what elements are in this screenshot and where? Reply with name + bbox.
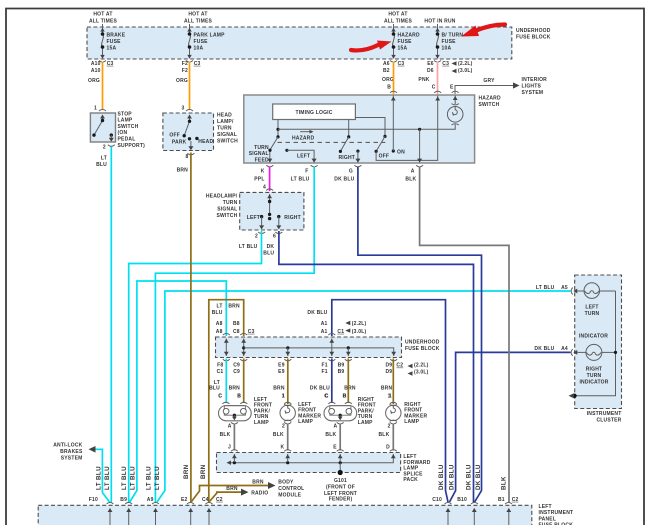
svg-text:F1: F1 — [321, 369, 327, 375]
svg-text:OFF: OFF — [379, 154, 390, 160]
svg-text:C9: C9 — [233, 369, 240, 375]
svg-text:B10: B10 — [457, 497, 467, 503]
node A BLK — [405, 168, 416, 182]
svg-text:B2: B2 — [383, 68, 390, 74]
wire LT BLU anti-lock brakes branch from F10 — [95, 449, 110, 502]
svg-text:GRY: GRY — [483, 78, 495, 84]
svg-text:STOP: STOP — [118, 111, 133, 117]
connector arcs hazard box bottom pins K F G A — [266, 165, 423, 167]
node F LT BLU — [291, 168, 310, 182]
node F1 F1 col4 out — [310, 363, 330, 400]
svg-text:B: B — [237, 394, 241, 400]
node F8 C1 col1 out — [209, 363, 223, 400]
svg-text:2: 2 — [255, 234, 258, 240]
svg-text:MODULE: MODULE — [278, 493, 301, 499]
node DK BLU A4 — [534, 346, 577, 356]
svg-text:ALL TIMES: ALL TIMES — [89, 19, 118, 25]
svg-text:PACK: PACK — [403, 477, 418, 483]
svg-text:B8: B8 — [233, 321, 240, 327]
wire timing logic right feed to on/off switch — [355, 118, 386, 138]
svg-text:HAZARD: HAZARD — [398, 33, 420, 39]
hazard indicator lamp — [447, 96, 463, 126]
svg-text:BLK: BLK — [501, 476, 508, 490]
wire BRN fuse block C8 to C4 — [209, 300, 244, 503]
wire BRN col2 to lamp1 B — [243, 359, 245, 404]
svg-text:INTERIOR: INTERIOR — [522, 77, 548, 83]
svg-text:FUSE: FUSE — [107, 39, 122, 45]
svg-text:LT BLU: LT BLU — [154, 466, 161, 490]
lamp left front marker — [280, 394, 321, 430]
wire col3 from bus — [285, 348, 290, 356]
svg-text:C: C — [218, 394, 222, 400]
svg-text:D6: D6 — [427, 68, 434, 74]
svg-text:C1: C1 — [217, 369, 224, 375]
node E9 E9 col3 out — [273, 363, 285, 400]
wire BRN radio branch from C4 — [210, 486, 269, 502]
svg-text:F1: F1 — [321, 363, 327, 369]
svg-text:J: J — [228, 444, 231, 450]
svg-text:DK BLU: DK BLU — [449, 464, 456, 490]
svg-text:HOT AT: HOT AT — [188, 12, 207, 18]
svg-text:LAMP: LAMP — [254, 420, 269, 426]
svg-text:RIGHT: RIGHT — [586, 366, 603, 372]
svg-text:ANTI-LOCK: ANTI-LOCK — [53, 443, 82, 449]
svg-text:F2: F2 — [182, 68, 188, 74]
svg-text:SWITCH: SWITCH — [216, 213, 237, 219]
wire col4 pass-through — [329, 339, 334, 357]
svg-text:A: A — [411, 168, 415, 174]
svg-text:RIGHT: RIGHT — [284, 215, 301, 221]
svg-text:LT BLU: LT BLU — [239, 244, 258, 250]
wire BLK lamp1 to splice J — [220, 424, 235, 451]
svg-text:LEFT: LEFT — [297, 154, 310, 160]
timing logic module — [273, 104, 356, 120]
red annotation arrow at b/turn fuse — [461, 25, 505, 37]
switch turn signal feed (K) — [249, 137, 278, 164]
svg-text:LAMP: LAMP — [404, 419, 419, 425]
svg-text:LAMP: LAMP — [358, 420, 373, 426]
svg-text:ALL TIMES: ALL TIMES — [184, 19, 213, 25]
svg-text:E6: E6 — [427, 61, 434, 67]
node G DK BLU — [334, 168, 354, 182]
svg-text:SWITCH: SWITCH — [479, 102, 500, 108]
svg-text:TURN: TURN — [223, 200, 238, 206]
svg-text:BLK: BLK — [273, 432, 284, 438]
svg-text:C: C — [324, 394, 328, 400]
svg-text:SYSTEM: SYSTEM — [61, 456, 83, 462]
underhood fuse block (middle) — [216, 333, 440, 357]
svg-text:C3: C3 — [194, 61, 201, 67]
svg-text:PPL: PPL — [254, 176, 264, 182]
svg-text:A9: A9 — [147, 497, 154, 503]
svg-text:HAZARD: HAZARD — [479, 96, 501, 102]
svg-text:F2: F2 — [182, 61, 188, 67]
wire col1 pass-through — [224, 339, 229, 357]
svg-text:K: K — [280, 444, 284, 450]
node LT BLU A8 A8 C3 (fuse block col1 in) — [212, 303, 223, 335]
wire LT BLU fuse block A8 to B9 — [130, 281, 227, 502]
svg-text:1: 1 — [94, 105, 97, 111]
svg-text:BRN: BRN — [228, 303, 240, 309]
svg-text:B9: B9 — [338, 363, 345, 369]
lamp right front marker — [386, 394, 428, 430]
svg-text:OFF: OFF — [169, 132, 180, 138]
svg-text:ON: ON — [397, 149, 405, 155]
wire col2 with bus junction — [241, 339, 246, 357]
node BRN B8 C8 C3 (fuse block col2 in) — [228, 303, 254, 335]
svg-text:A4: A4 — [561, 346, 568, 352]
svg-text:BRN: BRN — [226, 486, 238, 492]
svg-text:BRN: BRN — [177, 167, 189, 173]
svg-text:SIGNAL: SIGNAL — [249, 151, 269, 157]
svg-text:A: A — [333, 423, 337, 429]
svg-text:(3.0L): (3.0L) — [414, 369, 429, 375]
wire cluster internal return — [569, 291, 618, 398]
svg-text:DK BLU: DK BLU — [307, 310, 327, 316]
svg-text:TURN: TURN — [587, 373, 602, 379]
contact LEFT to pin F — [285, 149, 316, 163]
wire BLK lamp3 to splice E — [325, 424, 340, 451]
svg-text:2: 2 — [282, 423, 285, 429]
svg-text:BRN: BRN — [252, 479, 264, 485]
wire ORG park fuse to head lamp switch — [189, 62, 191, 111]
svg-text:(2.2L): (2.2L) — [414, 363, 429, 369]
wire ground bus to lamp and pin A — [278, 125, 455, 131]
svg-text:1: 1 — [388, 394, 391, 400]
wire col6 from bus corner — [391, 352, 396, 356]
wire BRN col6 to lamp4 — [392, 359, 394, 405]
svg-text:HOT AT: HOT AT — [388, 12, 407, 18]
svg-text:TIMING LOGIC: TIMING LOGIC — [295, 110, 332, 116]
svg-text:2: 2 — [388, 423, 391, 429]
svg-text:BLK: BLK — [379, 432, 390, 438]
svg-text:C1: C1 — [337, 329, 344, 335]
wire splice bus — [227, 455, 394, 465]
svg-text:B/ TURN: B/ TURN — [442, 33, 464, 39]
svg-text:C8: C8 — [233, 329, 240, 335]
svg-text:(2.2L): (2.2L) — [458, 61, 473, 67]
svg-text:D9: D9 — [386, 363, 393, 369]
svg-text:15A: 15A — [107, 46, 117, 52]
svg-text:C3: C3 — [442, 61, 449, 67]
svg-text:A8: A8 — [216, 321, 223, 327]
wire GRY to interior lights system — [450, 77, 547, 96]
svg-text:ORG: ORG — [176, 78, 188, 84]
svg-text:TURN: TURN — [585, 311, 600, 317]
node E6 D6 C3 pins (b/turn fuse output) — [418, 61, 472, 91]
svg-text:C10: C10 — [432, 497, 442, 503]
wire label LT BLU (stop lamp pair) — [96, 466, 112, 490]
wire BLK lamp4 to splice D — [379, 424, 394, 451]
instrument cluster — [575, 275, 622, 424]
svg-text:C2: C2 — [396, 363, 403, 369]
svg-text:FUSE: FUSE — [194, 39, 209, 45]
svg-text:(3.0L): (3.0L) — [458, 68, 473, 74]
node LT BLU A5 — [536, 285, 577, 295]
svg-text:10A: 10A — [442, 46, 452, 52]
svg-text:DK: DK — [267, 244, 275, 250]
svg-text:CONTROL: CONTROL — [278, 486, 304, 492]
svg-text:FEED: FEED — [255, 157, 269, 163]
svg-text:LT: LT — [101, 155, 107, 161]
svg-text:D9: D9 — [386, 369, 393, 375]
svg-text:C3: C3 — [398, 61, 405, 67]
svg-text:C: C — [432, 85, 436, 91]
wire BRN col3 to lamp2 — [287, 359, 289, 405]
svg-text:LEFT: LEFT — [247, 215, 260, 221]
wire LT BLU turn switch pin2 to B9 — [129, 231, 262, 503]
svg-text:(3.0L): (3.0L) — [352, 329, 367, 335]
svg-text:LT BLU: LT BLU — [96, 466, 103, 490]
svg-text:BLU: BLU — [263, 250, 274, 256]
mechanical link dashed HAZARD — [278, 130, 386, 143]
svg-text:INDICATOR: INDICATOR — [579, 379, 608, 385]
wire PNK b/turn fuse to hazard switch pin C — [437, 62, 439, 95]
node A6 B2 C3 pins (hazard fuse output) — [382, 61, 404, 91]
wire park lamp bus — [244, 346, 394, 356]
underhood fuse block (top) — [87, 27, 551, 59]
svg-text:LAMP/: LAMP/ — [217, 119, 234, 125]
svg-text:F10: F10 — [89, 497, 98, 503]
svg-text:PARK LAMP: PARK LAMP — [194, 33, 226, 39]
svg-text:C4: C4 — [202, 497, 209, 503]
wire LT BLU col1 to lamp1 C — [225, 359, 227, 404]
node HOT AT ALL TIMES (park) — [184, 12, 213, 25]
svg-text:1: 1 — [282, 394, 285, 400]
switch hazard on/off — [375, 96, 441, 161]
wire LT BLU stop lamp to F10 — [110, 147, 112, 504]
svg-text:FUSE: FUSE — [398, 39, 413, 45]
svg-text:HEAD: HEAD — [198, 139, 213, 145]
wire BRN col5 to lamp3 B — [347, 359, 349, 404]
ground G101 — [324, 463, 357, 503]
left forward lamp splice pack — [217, 450, 431, 484]
svg-text:DK BLU: DK BLU — [334, 176, 354, 182]
svg-text:E: E — [450, 85, 454, 91]
lamp left front park/turn — [218, 394, 272, 430]
svg-text:B: B — [343, 394, 347, 400]
wire ORG hazard fuse to hazard switch pin B — [393, 62, 395, 95]
lamp right turn indicator — [578, 344, 616, 385]
wire timing logic leg to right switch — [347, 120, 350, 139]
head lamp switch — [163, 105, 238, 173]
svg-text:6: 6 — [273, 234, 276, 240]
svg-text:BRN: BRN — [381, 386, 393, 392]
headlamp/turn signal switch (lower) — [206, 189, 304, 257]
wire timing logic left leg to turn-feed switch — [276, 120, 279, 139]
svg-text:BRN: BRN — [200, 464, 207, 479]
svg-text:FUSE BLOCK: FUSE BLOCK — [405, 346, 440, 352]
svg-text:BLK: BLK — [220, 432, 231, 438]
node HOT AT ALL TIMES (brake) — [89, 12, 118, 25]
svg-text:E9: E9 — [278, 369, 285, 375]
svg-text:A10: A10 — [91, 68, 101, 74]
svg-text:B9: B9 — [120, 497, 127, 503]
svg-text:LAMP: LAMP — [298, 419, 313, 425]
svg-text:A5: A5 — [561, 285, 568, 291]
contact G to pin G — [355, 150, 360, 163]
svg-text:LEFT: LEFT — [539, 504, 552, 510]
hazard fuse 15A — [390, 24, 420, 62]
svg-text:10A: 10A — [194, 46, 204, 52]
svg-text:E: E — [333, 444, 337, 450]
wire BLK hazard A to B1 — [420, 167, 509, 504]
svg-text:A1: A1 — [321, 329, 328, 335]
svg-text:BRAKES: BRAKES — [60, 449, 83, 455]
svg-text:HOT AT: HOT AT — [93, 12, 112, 18]
svg-text:E2: E2 — [181, 497, 188, 503]
svg-text:LT: LT — [216, 303, 222, 309]
svg-text:BODY: BODY — [278, 480, 294, 486]
svg-text:LT BLU: LT BLU — [121, 466, 128, 490]
wire DK BLU hazard G to B10 — [358, 167, 482, 503]
svg-text:PARK: PARK — [172, 140, 187, 146]
svg-text:HEAD: HEAD — [217, 113, 232, 119]
wire fuse block internal pin stubs — [108, 508, 512, 525]
svg-text:E9: E9 — [278, 363, 285, 369]
svg-text:TURN: TURN — [217, 126, 232, 132]
svg-text:(ON: (ON — [118, 130, 128, 136]
wire DK BLU col4 to lamp3 C — [331, 359, 333, 404]
svg-text:FUSE: FUSE — [442, 39, 457, 45]
wire label DK BLU (B10 pair) — [466, 464, 483, 490]
svg-text:A10: A10 — [91, 61, 101, 67]
svg-text:SWITCH: SWITCH — [118, 124, 139, 130]
svg-text:UNDERHOOD: UNDERHOOD — [516, 28, 551, 34]
wire LT BLU cluster A5 to A9 — [157, 291, 571, 502]
stop lamp switch — [90, 105, 145, 168]
svg-text:SIGNAL: SIGNAL — [217, 132, 237, 138]
svg-text:BLK: BLK — [325, 432, 336, 438]
svg-text:C2: C2 — [216, 497, 223, 503]
wire BLK lamp2 to splice K — [273, 424, 288, 451]
wire DK BLU fuse block A1 to C10 — [332, 300, 448, 502]
svg-text:INSTRUMENT: INSTRUMENT — [539, 510, 574, 516]
node B9 B9 col5 out — [338, 363, 356, 400]
wire BRN head lamp switch to E2 — [190, 153, 192, 504]
svg-text:LT BLU: LT BLU — [291, 176, 310, 182]
svg-text:TURN: TURN — [254, 145, 269, 151]
lamp left turn indicator — [578, 283, 616, 317]
brake fuse 15A — [99, 24, 126, 62]
svg-text:A1: A1 — [321, 321, 328, 327]
svg-text:3: 3 — [182, 105, 185, 111]
svg-text:A: A — [228, 423, 232, 429]
svg-text:B9: B9 — [338, 369, 345, 375]
lamp right front park/turn — [324, 394, 376, 430]
svg-text:INDICATOR: INDICATOR — [579, 333, 608, 339]
svg-text:LT BLU: LT BLU — [129, 466, 136, 490]
contact ON to pin B — [391, 96, 405, 156]
svg-text:LEFT: LEFT — [585, 305, 598, 311]
hazard switch box — [244, 95, 501, 163]
node K PPL 4 — [254, 168, 266, 190]
red annotation arrow at hazard fuse — [351, 41, 392, 51]
svg-text:HOT IN RUN: HOT IN RUN — [424, 19, 455, 25]
svg-text:B: B — [387, 85, 391, 91]
svg-text:ORG: ORG — [382, 77, 394, 83]
svg-text:RIGHT: RIGHT — [339, 155, 356, 161]
svg-text:DK BLU: DK BLU — [438, 464, 445, 490]
switch right (hazard) — [339, 137, 356, 161]
svg-text:BRN: BRN — [344, 386, 356, 392]
svg-text:LAMP: LAMP — [118, 118, 133, 124]
svg-text:4: 4 — [263, 184, 266, 190]
connector arcs hazard box top pins B C E — [390, 91, 459, 93]
svg-text:C9: C9 — [233, 363, 240, 369]
svg-text:G101: G101 — [334, 478, 347, 484]
svg-text:RADIO: RADIO — [251, 491, 268, 497]
svg-text:(2.2L): (2.2L) — [352, 321, 367, 327]
node D9 D9 C2 col6 out — [381, 363, 429, 400]
node HOT AT ALL TIMES (hazard) — [384, 12, 413, 25]
svg-text:LT BLU: LT BLU — [104, 466, 111, 490]
b/turn fuse 10A — [434, 24, 463, 62]
svg-text:C2: C2 — [512, 497, 519, 503]
node anti-lock brakes system — [53, 443, 95, 462]
svg-text:D: D — [386, 444, 390, 450]
svg-text:8: 8 — [186, 154, 189, 160]
wire BRN body control module branch from E2 — [192, 479, 305, 501]
svg-text:PNK: PNK — [418, 77, 429, 83]
svg-text:SUPPORT): SUPPORT) — [118, 143, 146, 149]
svg-text:BLU: BLU — [212, 310, 223, 316]
svg-text:BRN: BRN — [273, 386, 285, 392]
svg-text:INSTRUMENT: INSTRUMENT — [587, 411, 622, 417]
svg-text:CLUSTER: CLUSTER — [596, 418, 621, 424]
wire col5 from bus — [346, 348, 351, 356]
svg-text:BRN: BRN — [229, 386, 241, 392]
svg-text:DK BLU: DK BLU — [475, 464, 482, 490]
svg-text:B1: B1 — [498, 497, 505, 503]
svg-text:A6: A6 — [383, 61, 390, 67]
svg-text:DK BLU: DK BLU — [310, 386, 330, 392]
node DK BLU A1 A1 C1 (fuse block col4 in) — [307, 310, 366, 335]
svg-text:SWITCH: SWITCH — [217, 139, 238, 145]
wire label DK BLU (C10 pair) — [438, 464, 456, 490]
svg-text:2: 2 — [103, 145, 106, 151]
node C9 C9 col2 out — [229, 363, 242, 400]
wire DK BLU turn switch pin6 to B10 — [279, 231, 474, 503]
wire pin A ground leg — [417, 129, 422, 163]
svg-text:LT BLU: LT BLU — [146, 466, 153, 490]
svg-text:A8: A8 — [216, 329, 223, 335]
svg-text:HAZARD: HAZARD — [292, 135, 314, 141]
svg-text:LT BLU: LT BLU — [536, 285, 555, 291]
park lamp fuse 10A — [186, 24, 225, 62]
svg-text:G: G — [349, 168, 353, 174]
svg-text:PANEL: PANEL — [539, 516, 557, 522]
svg-text:C3: C3 — [107, 61, 114, 67]
svg-text:K: K — [261, 168, 265, 174]
svg-text:BRN: BRN — [183, 464, 190, 479]
svg-text:BLU: BLU — [209, 386, 220, 392]
svg-text:HEADLAMP/: HEADLAMP/ — [206, 193, 238, 199]
node F2 F2 C3 pins (park fuse output) — [176, 61, 201, 84]
svg-text:F8: F8 — [217, 363, 223, 369]
wire PPL K to turn signal switch pin 4 — [269, 167, 271, 192]
svg-text:ORG: ORG — [88, 78, 100, 84]
svg-text:(FRONT OF: (FRONT OF — [326, 485, 355, 491]
svg-text:SIGNAL: SIGNAL — [217, 206, 237, 212]
svg-text:F: F — [305, 168, 308, 174]
svg-text:DK BLU: DK BLU — [466, 464, 473, 490]
svg-text:ALL TIMES: ALL TIMES — [384, 19, 413, 25]
wire label LT BLU (A9 pair) — [146, 466, 161, 490]
svg-text:C3: C3 — [248, 329, 255, 335]
svg-text:FENDER): FENDER) — [329, 497, 353, 503]
svg-text:BLK: BLK — [405, 176, 416, 182]
